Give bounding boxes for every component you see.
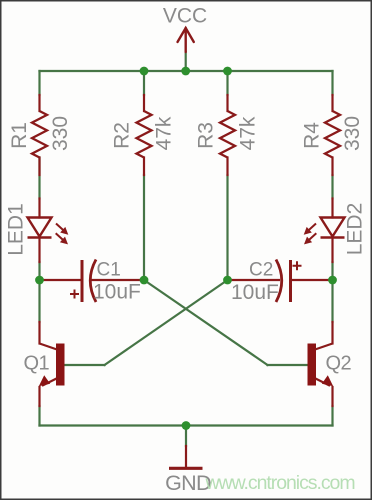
svg-text:VCC: VCC (163, 5, 207, 28)
svg-text:www.cntronics.com: www.cntronics.com (205, 472, 355, 494)
svg-text:LED1: LED1 (5, 203, 28, 256)
svg-text:R2: R2 (111, 122, 134, 149)
svg-text:R3: R3 (195, 122, 218, 149)
svg-text:47k: 47k (153, 116, 176, 150)
svg-text:Q1: Q1 (24, 353, 50, 375)
svg-text:330: 330 (49, 116, 72, 151)
svg-text:GND: GND (165, 471, 211, 495)
svg-text:R1: R1 (8, 122, 31, 149)
svg-text:330: 330 (341, 116, 364, 151)
svg-text:10uF: 10uF (231, 281, 279, 304)
svg-text:10uF: 10uF (93, 281, 141, 304)
svg-text:C1: C1 (97, 260, 121, 281)
svg-text:47k: 47k (237, 116, 260, 150)
svg-text:Q2: Q2 (326, 353, 352, 375)
svg-text:C2: C2 (249, 260, 273, 281)
svg-text:R4: R4 (301, 122, 324, 149)
svg-text:LED2: LED2 (344, 203, 367, 256)
